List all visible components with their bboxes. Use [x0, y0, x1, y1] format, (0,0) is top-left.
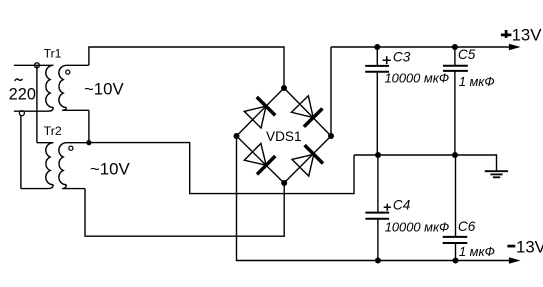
capacitor C5 plates: [443, 66, 468, 71]
capacitor C4 leads: [377, 155, 379, 261]
wire bridge right node to top rail: [330, 47, 332, 136]
svg-text:VDS1: VDS1: [266, 129, 302, 144]
Tr1 primary top lead: [14, 64, 53, 66]
transformer Tr1: [14, 65, 89, 111]
wire +13V top rail: [331, 46, 511, 48]
svg-text:~10V: ~10V: [90, 159, 130, 178]
svg-text:~10V: ~10V: [84, 79, 124, 98]
wire Tr1 secondary top to bridge top node: [89, 47, 284, 88]
svg-text:10000 мкФ: 10000 мкФ: [385, 219, 450, 234]
junction node: C5 top rail: [452, 44, 458, 50]
svg-text:C5: C5: [458, 47, 476, 62]
capacitor C3 plates: [365, 66, 389, 72]
diode VD4 (bottom node to right node): [291, 145, 323, 177]
capacitor C5 leads: [454, 47, 456, 155]
junction node: bridge right: [328, 133, 334, 139]
Tr1 secondary winding: [59, 65, 67, 107]
capacitor C4 plates: [365, 213, 389, 219]
Tr1 secondary top lead: [66, 64, 89, 66]
ground symbol: [485, 171, 508, 177]
Tr2 primary winding: [46, 143, 54, 185]
svg-text:13V: 13V: [516, 238, 543, 257]
junction node: transformer midpoint: [86, 140, 91, 145]
minus sign of -13V: [507, 245, 515, 248]
wire mains vertical to Tr2 primary bottom: [20, 116, 22, 189]
wire middle rail to ground: [354, 155, 497, 171]
arrow +13V output: [509, 44, 521, 50]
mains terminal top: [34, 63, 39, 68]
Tr2 secondary top lead: [66, 142, 89, 144]
diode VD1 (left node to top node): [243, 97, 275, 129]
Tr2 secondary polarity terminal: [69, 146, 73, 150]
mains terminal bottom: [19, 111, 24, 116]
svg-text:C3: C3: [393, 49, 411, 64]
Tr1 secondary bottom lead: [62, 107, 89, 110]
Tr2 primary top lead: [37, 142, 53, 144]
svg-text:220: 220: [9, 85, 36, 103]
diode VD3 (left node to bottom node): [243, 143, 275, 175]
svg-text:10000 мкФ: 10000 мкФ: [385, 71, 450, 86]
junction node: C5/C6 middle rail: [452, 152, 458, 158]
junction node: bridge top: [281, 85, 287, 91]
Tr2 primary bottom lead: [21, 185, 54, 189]
capacitor C6 leads: [455, 155, 457, 261]
capacitor C3 leads: [376, 47, 378, 155]
wire bridge left node to bottom rail: [237, 136, 512, 261]
capacitor C6 plates: [443, 237, 468, 243]
junction node: bridge bottom: [281, 180, 287, 186]
junction node: C4 bottom rail: [375, 258, 381, 264]
wire mains vertical to Tr2 primary top: [36, 65, 38, 142]
Tr1 primary winding: [46, 65, 54, 107]
transformer Tr2: [21, 143, 89, 189]
label ~ (mains): [15, 79, 23, 81]
Tr2 secondary winding: [59, 143, 67, 185]
svg-text:1 мкФ: 1 мкФ: [459, 74, 495, 89]
svg-text:1 мкФ: 1 мкФ: [459, 244, 495, 259]
wire midpoint to middle rail: [89, 143, 354, 194]
arrow -13V output: [509, 257, 521, 263]
diode VD2 (top node to right node): [291, 95, 323, 127]
wire Tr1 secondary bottom down to midpoint: [88, 110, 90, 142]
svg-text:C6: C6: [458, 219, 476, 234]
junction node: C3/C4 middle rail: [375, 152, 381, 158]
junction node: C3 top rail: [374, 44, 380, 50]
junction node: C6 bottom rail: [453, 258, 459, 264]
junction node: bridge left: [234, 133, 240, 139]
svg-text:C4: C4: [393, 197, 411, 212]
Tr1 secondary polarity terminal: [66, 70, 70, 74]
Tr2 secondary bottom lead: [62, 185, 85, 189]
label + of C4: [384, 204, 391, 211]
diode bridge VDS1 frame: [237, 88, 332, 183]
label + of C3: [383, 56, 391, 64]
plus sign of +13V: [501, 30, 512, 38]
svg-text:Tr1: Tr1: [44, 46, 62, 60]
wire Tr2 secondary bottom to bridge bottom node: [85, 183, 284, 236]
svg-text:13V: 13V: [512, 25, 543, 44]
svg-text:Tr2: Tr2: [44, 124, 62, 138]
Tr1 primary bottom lead: [14, 107, 53, 111]
